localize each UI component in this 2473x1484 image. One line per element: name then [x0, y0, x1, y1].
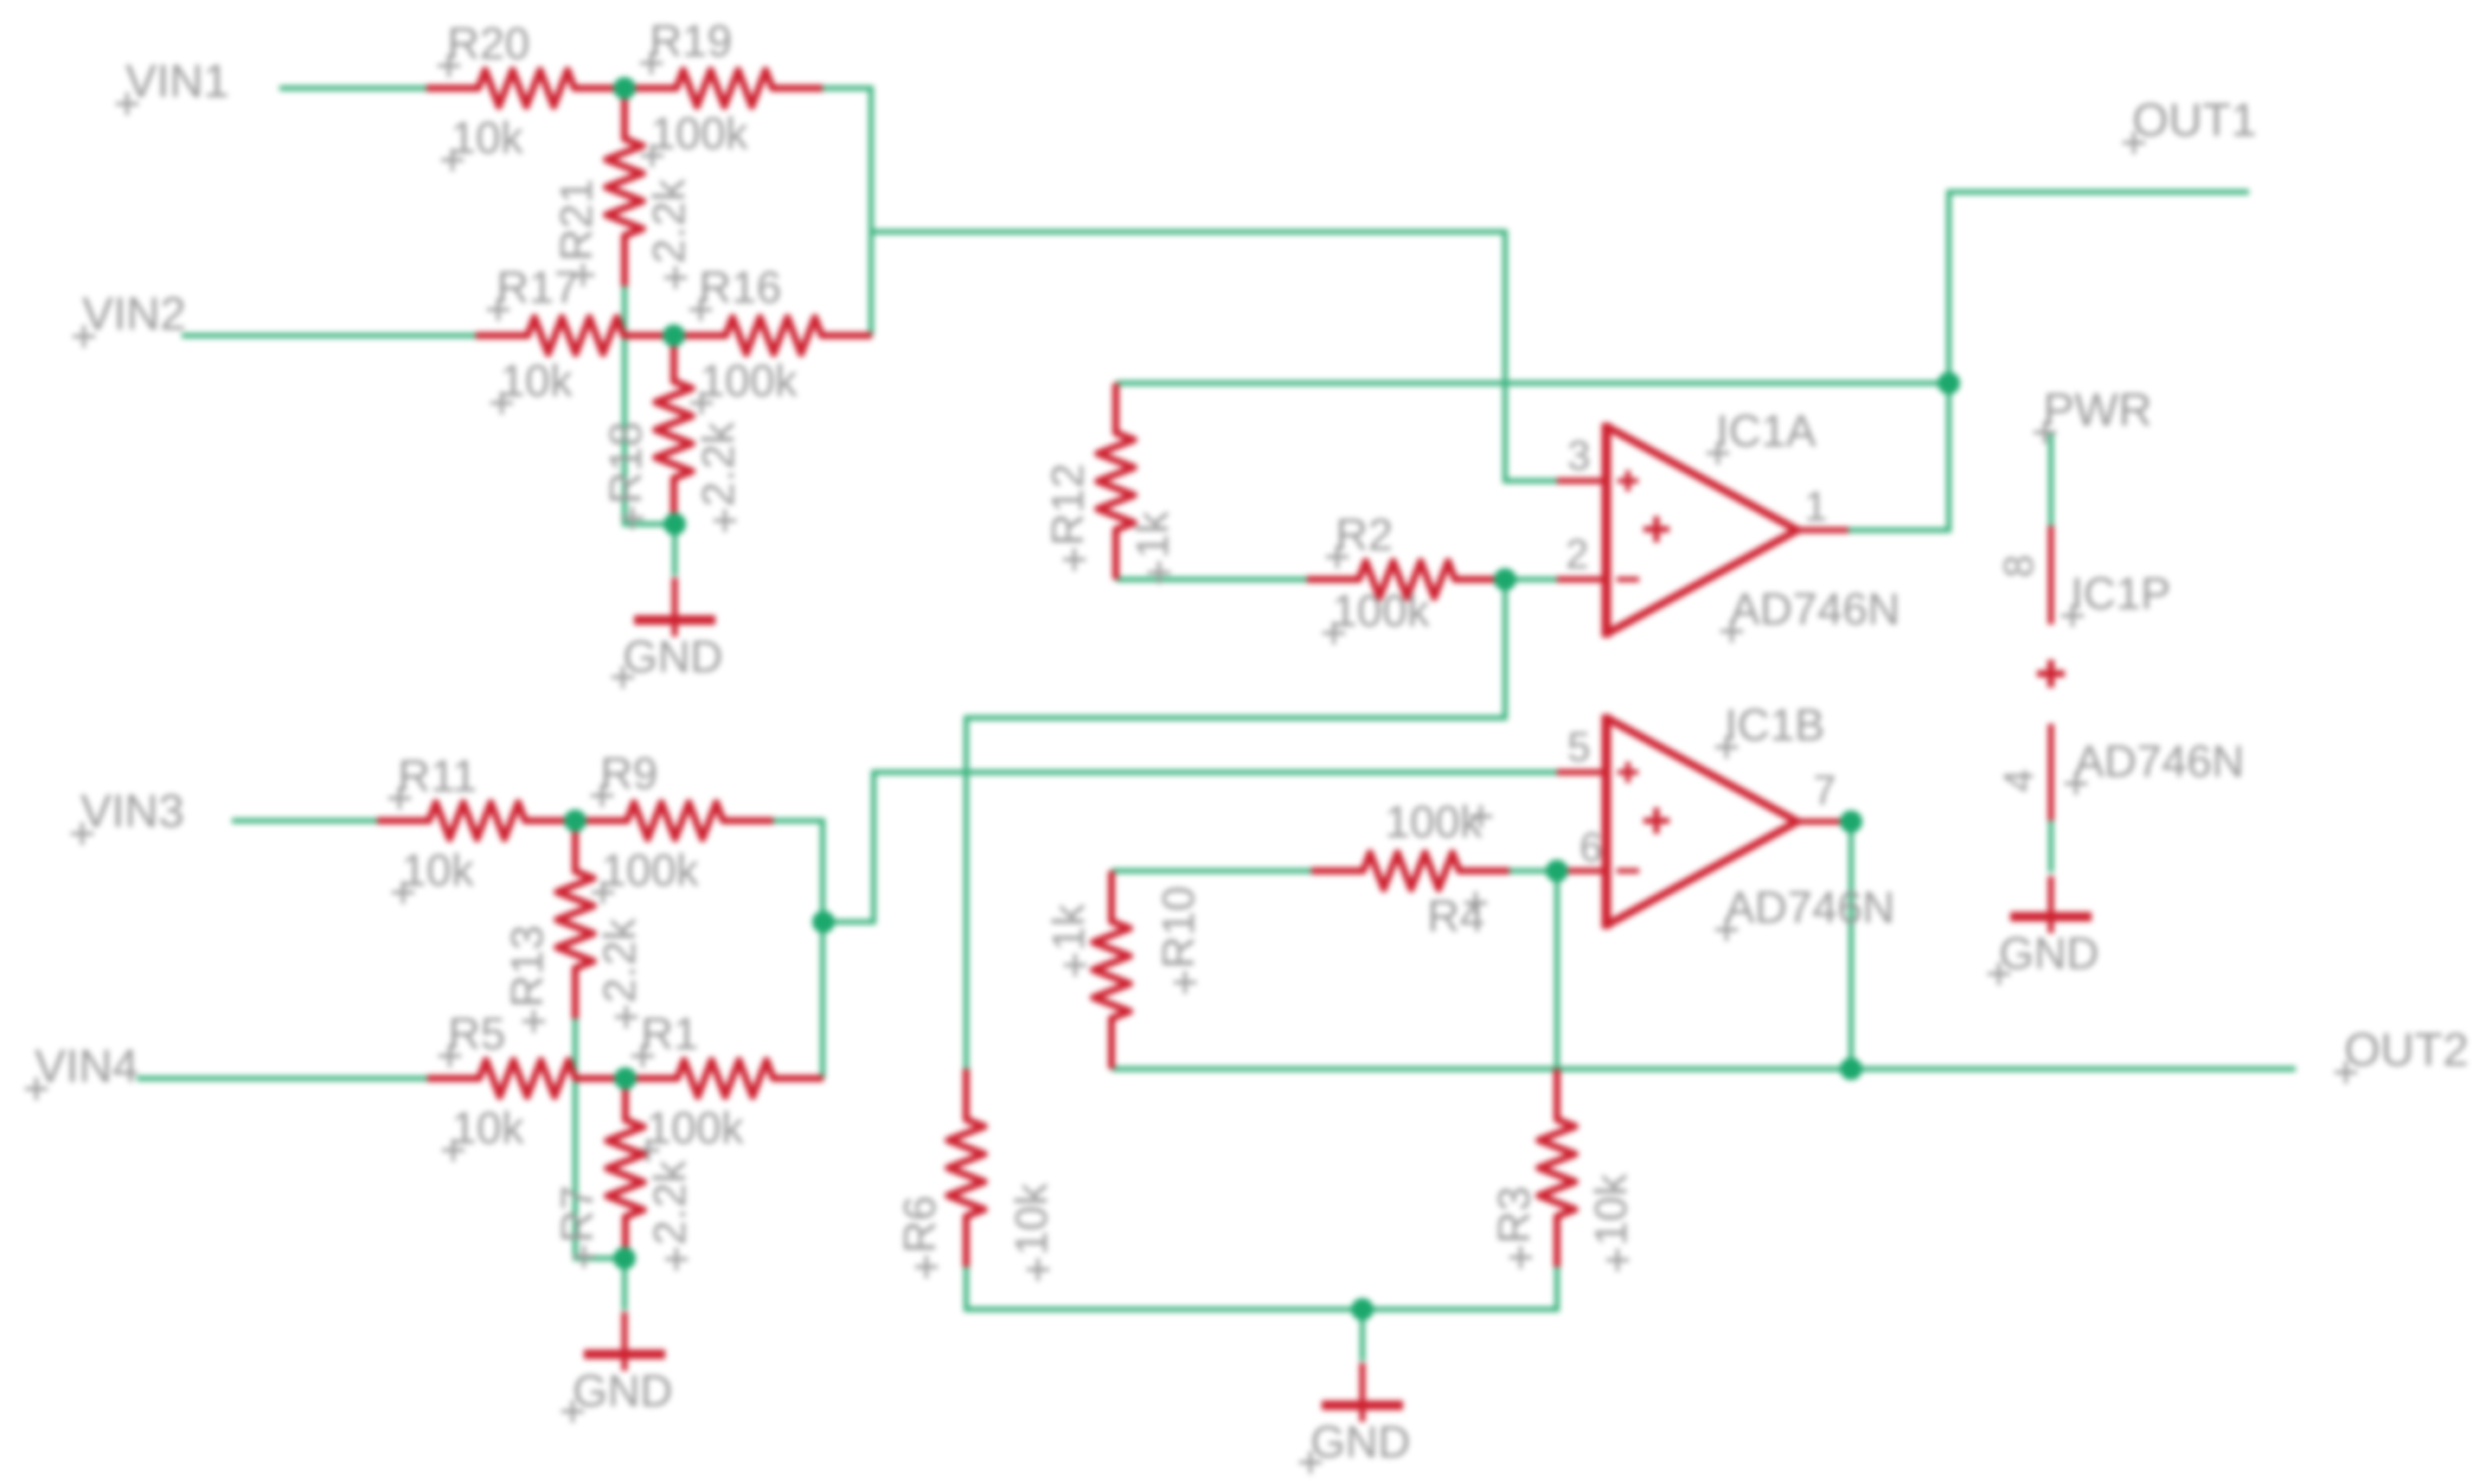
svg-text:10k: 10k [1586, 1173, 1637, 1246]
svg-text:8: 8 [1996, 554, 2042, 578]
junction R2/pin2 [1494, 568, 1516, 591]
resistor R11 [377, 803, 575, 839]
junction VIN3/R11/R9/R13 [564, 809, 586, 832]
svg-text:AD746N: AD746N [1730, 585, 1900, 635]
svg-text:R3: R3 [1490, 1187, 1540, 1244]
resistor R18 [656, 336, 692, 524]
ground GND lower network [622, 1258, 627, 1310]
op-amp IC1A [1606, 426, 1797, 634]
resistor R2 [1307, 561, 1505, 598]
svg-text:GND: GND [1999, 929, 2099, 979]
svg-text:OUT1: OUT1 [2132, 94, 2257, 146]
svg-text:R7: R7 [553, 1186, 603, 1243]
IC1P origin [2037, 660, 2065, 688]
svg-text:R13: R13 [503, 925, 553, 1007]
svg-text:R18: R18 [601, 422, 651, 504]
wire IC1B output down to OUT2 [1848, 822, 1851, 1069]
resistor R9 [575, 803, 773, 839]
svg-text:2.2k: 2.2k [694, 421, 744, 507]
svg-text:VIN1: VIN1 [125, 55, 229, 107]
svg-text:R19: R19 [650, 16, 732, 67]
resistor R12 [1098, 383, 1134, 579]
wire PWR to IC1P pin 8 [2048, 432, 2053, 526]
svg-text:100k: 100k [1332, 586, 1431, 636]
svg-text:10k: 10k [451, 113, 524, 163]
resistor R13 [557, 821, 593, 1019]
svg-text:2.2k: 2.2k [595, 918, 645, 1003]
svg-text:VIN4: VIN4 [35, 1040, 138, 1092]
wire IC1P pin 4 to GND [2048, 821, 2053, 873]
wire R21 bottom to GND node [625, 286, 675, 524]
wire VIN3 to R11 [232, 818, 377, 823]
svg-text:AD746N: AD746N [1725, 883, 1895, 933]
svg-text:R16: R16 [699, 263, 781, 313]
ground GND bottom rail [1360, 1309, 1365, 1361]
svg-text:R9: R9 [600, 749, 657, 799]
wire R19 right down to R16 right [823, 88, 871, 336]
resistor R4 [1311, 853, 1509, 889]
wire node to IC1A pin 3 [871, 232, 1560, 481]
svg-text:OUT2: OUT2 [2344, 1024, 2469, 1076]
wire R4 right to IC1B pin 6 [1509, 868, 1560, 873]
junction R18/R21/GND [663, 513, 686, 535]
wire VIN2 to R17 [182, 333, 476, 338]
svg-text:VIN3: VIN3 [80, 785, 184, 837]
svg-text:GND: GND [573, 1366, 673, 1417]
wire R2 right to IC1A pin 2 [1505, 577, 1560, 582]
junction IC1B output [1840, 810, 1862, 833]
svg-text:2: 2 [1566, 532, 1589, 578]
op-amp IC1B [1606, 718, 1797, 925]
svg-text:IC1B: IC1B [1725, 700, 1825, 751]
svg-text:100k: 100k [601, 846, 700, 896]
resistor R7 [607, 1078, 644, 1258]
svg-text:5: 5 [1567, 725, 1591, 771]
svg-text:R20: R20 [447, 19, 529, 69]
svg-text:R2: R2 [1336, 510, 1393, 560]
svg-text:GND: GND [1310, 1417, 1411, 1468]
ground GND IC1P [2048, 876, 2054, 933]
wire R12 bottom to R2 left [1116, 577, 1307, 582]
svg-text:1: 1 [1804, 484, 1828, 530]
svg-text:100k: 100k [646, 1103, 745, 1154]
svg-text:100k: 100k [700, 356, 798, 406]
svg-text:IC1P: IC1P [2071, 569, 2171, 619]
wire R9 right down to R1 right [773, 821, 823, 1078]
svg-text:AD746N: AD746N [2074, 737, 2245, 787]
svg-text:10k: 10k [452, 1103, 525, 1154]
power part IC1P pin 4 [2048, 724, 2054, 821]
wire feedback OUT1 to R12 top [1116, 381, 1949, 386]
svg-text:IC1A: IC1A [1716, 406, 1816, 457]
svg-text:R5: R5 [448, 1009, 505, 1059]
svg-text:VIN2: VIN2 [82, 288, 186, 340]
junction R4/pin6/R3 [1546, 860, 1568, 882]
junction to pin5 branch [812, 911, 835, 933]
wire IC1A output to OUT1 [1848, 192, 2249, 530]
resistor R10 [1093, 871, 1130, 1069]
wire R10 top to R4 left [1112, 868, 1311, 873]
svg-text:1k: 1k [1128, 510, 1178, 559]
wire node to IC1B pin 5 [823, 772, 1560, 922]
resistor R5 [427, 1060, 625, 1097]
junction OUT1/feedback [1938, 372, 1960, 394]
resistor R20 [426, 70, 625, 106]
svg-text:PWR: PWR [2043, 384, 2152, 436]
svg-text:2.2k: 2.2k [644, 178, 695, 264]
junction bottom rail GND [1351, 1298, 1374, 1321]
resistor R3 [1539, 1069, 1575, 1267]
svg-text:R6: R6 [895, 1196, 945, 1253]
resistor R21 [606, 88, 643, 286]
svg-text:6: 6 [1579, 825, 1603, 871]
wire pin2 node down to R6 top [966, 579, 1505, 1069]
wire VIN4 to R5 [137, 1076, 427, 1081]
svg-text:R12: R12 [1043, 464, 1093, 546]
wire OUT2 line [1112, 1066, 2296, 1071]
svg-text:GND: GND [623, 632, 723, 682]
svg-text:10k: 10k [500, 356, 573, 406]
svg-text:100k: 100k [650, 109, 749, 159]
wire bottom rail R6 to R3 [966, 1267, 1557, 1309]
wire VIN1 to R20 [279, 86, 426, 91]
resistor R17 [476, 317, 674, 354]
resistor R1 [625, 1060, 823, 1097]
wire R13 bottom to GND node [575, 1019, 625, 1258]
svg-text:R17: R17 [497, 263, 579, 313]
junction VIN4/R5/R1/R7 [614, 1067, 637, 1090]
junction VIN2/R17/R16/R18 [663, 324, 685, 347]
svg-text:100k: 100k [1385, 797, 1483, 848]
junction VIN1/R20/R19/R21 [613, 77, 636, 99]
svg-text:R21: R21 [552, 179, 602, 261]
resistor R16 [674, 317, 872, 354]
svg-text:4: 4 [1996, 769, 2042, 792]
junction OUT2 [1840, 1058, 1862, 1080]
power part IC1P pin 8 [2048, 526, 2054, 624]
svg-text:10k: 10k [401, 846, 475, 896]
wire pin6 node down to R3 top [1554, 871, 1560, 1069]
ground GND upper network [672, 524, 677, 576]
svg-text:R1: R1 [641, 1009, 698, 1059]
resistor R19 [625, 70, 823, 106]
svg-text:2.2k: 2.2k [645, 1160, 695, 1245]
svg-text:7: 7 [1813, 768, 1836, 814]
junction R7/R13/GND [613, 1247, 636, 1270]
svg-text:1k: 1k [1044, 903, 1094, 951]
svg-text:10k: 10k [1007, 1182, 1057, 1256]
svg-text:3: 3 [1567, 433, 1591, 479]
resistor R6 [948, 1069, 984, 1267]
svg-text:R10: R10 [1154, 886, 1204, 969]
svg-text:R11: R11 [398, 752, 477, 802]
